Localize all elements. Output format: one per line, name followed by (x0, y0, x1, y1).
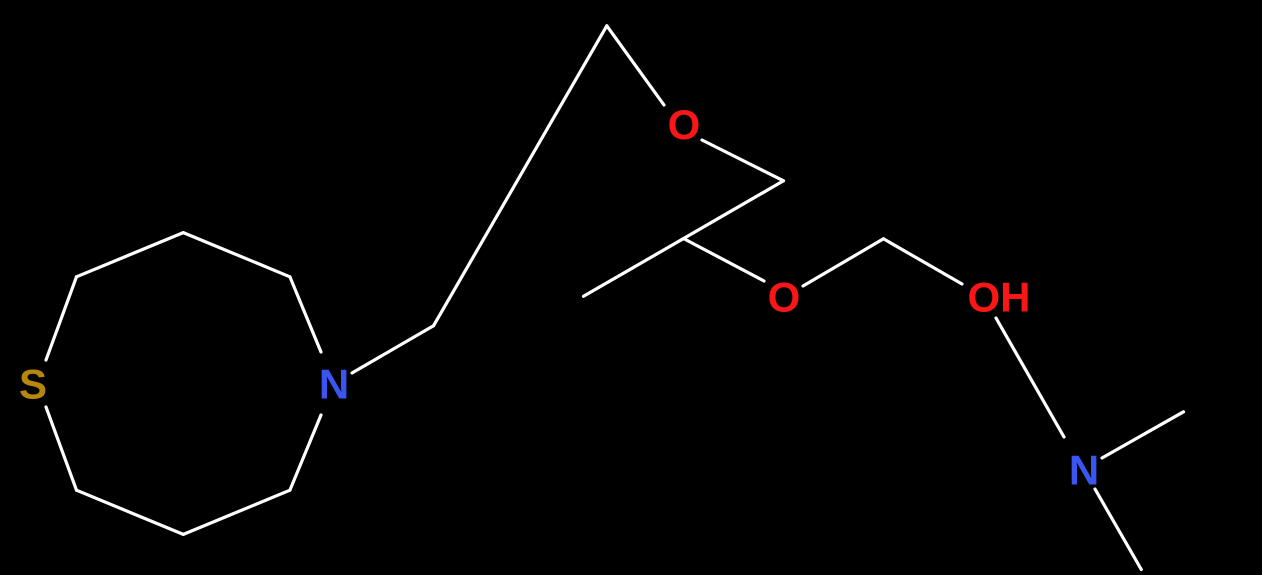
svg-text:OH: OH (968, 274, 1031, 321)
wire ring bond NE to N1 (290, 277, 321, 352)
wire bond O-top to Ca (702, 140, 784, 181)
svg-text:O: O (768, 274, 801, 321)
wire ring bond SW to S (46, 407, 77, 490)
wire bond CH2a to OH (884, 239, 963, 284)
wire bond Vc to O-mid (684, 239, 765, 282)
svg-text:O: O (668, 101, 701, 148)
wire long bond OH to N2 (996, 318, 1064, 437)
wire long bond Ca to Vd via Vc (584, 181, 784, 296)
wire ring bond N1 to SE vertex (290, 415, 321, 490)
svg-text:S: S (19, 361, 47, 408)
wire ring bond top to NE vertex (183, 233, 290, 277)
wire bond N2 to methyl 2 (1095, 489, 1141, 570)
svg-text:N: N (1069, 447, 1099, 494)
wire long bond W1 to K2 (434, 126, 550, 326)
svg-text:N: N (319, 361, 349, 408)
wire bond K2 to T apex (549, 26, 607, 126)
wire ring bond bottom to SW vertex (77, 490, 184, 534)
wire ring bond SE to bottom vertex (183, 490, 290, 534)
wire bond O-mid to CH2a (803, 239, 884, 286)
wire ring bond NW to top vertex (77, 233, 184, 277)
wire bond T to O-top (607, 26, 664, 105)
wire bond N2 to methyl 1 (1102, 412, 1184, 458)
wire bond N1 to W1 (352, 326, 434, 373)
wire ring bond S to NW vertex (46, 277, 77, 360)
